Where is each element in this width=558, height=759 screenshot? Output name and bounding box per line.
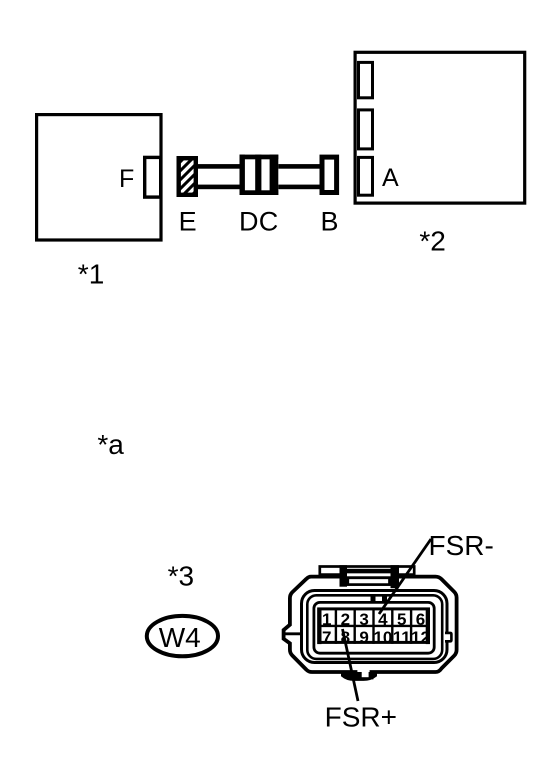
svg-text:7: 7 <box>322 628 331 647</box>
svg-text:5: 5 <box>397 610 406 629</box>
svg-text:6: 6 <box>416 610 425 629</box>
svg-text:*1: *1 <box>78 259 104 290</box>
svg-text:*3: *3 <box>168 561 194 592</box>
svg-text:9: 9 <box>359 628 368 647</box>
svg-text:2: 2 <box>341 610 350 629</box>
svg-text:1: 1 <box>322 610 331 629</box>
svg-text:10: 10 <box>373 628 392 647</box>
svg-text:FSR+: FSR+ <box>325 702 397 733</box>
svg-text:FSR-: FSR- <box>429 530 494 561</box>
svg-text:12: 12 <box>411 628 430 647</box>
svg-text:W4: W4 <box>159 622 201 653</box>
svg-text:C: C <box>259 207 279 237</box>
svg-text:D: D <box>239 207 259 237</box>
svg-text:A: A <box>382 164 399 192</box>
svg-text:B: B <box>320 207 338 237</box>
svg-text:E: E <box>179 207 197 237</box>
svg-text:*2: *2 <box>419 226 445 257</box>
svg-text:*a: *a <box>97 429 124 460</box>
svg-text:11: 11 <box>393 628 411 647</box>
svg-text:3: 3 <box>359 610 368 629</box>
svg-text:F: F <box>119 165 134 193</box>
